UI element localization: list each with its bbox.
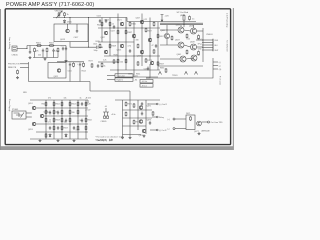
svg-text:Q653: Q653 xyxy=(28,129,33,131)
resistor R609 xyxy=(57,48,59,53)
bus label box Right In xyxy=(115,78,133,81)
resistor R639 xyxy=(125,59,127,64)
resistor R603 xyxy=(49,45,55,47)
transistor Q637 output xyxy=(178,42,184,48)
svg-text:Q631: Q631 xyxy=(161,30,166,32)
thermal sensor arrow 2 xyxy=(185,72,188,75)
svg-text:Q621: Q621 xyxy=(117,20,122,22)
node bias rail junction xyxy=(64,17,65,18)
electrolytic C609 xyxy=(65,47,67,51)
capacitor C631 xyxy=(147,67,149,71)
connector CN615 xyxy=(12,46,17,51)
svg-text:4.7k: 4.7k xyxy=(128,46,131,48)
resistor R655b xyxy=(77,102,79,107)
page edge shadow right xyxy=(233,8,234,150)
resistor R667 emitter xyxy=(186,34,188,39)
wire servo top link xyxy=(57,61,84,63)
svg-text:Relay: Relay xyxy=(159,117,164,119)
wire q out 2 xyxy=(152,116,156,118)
resistor R653 xyxy=(153,22,155,27)
svg-text:C611: C611 xyxy=(68,71,72,73)
svg-text:(-): (-) xyxy=(168,129,170,131)
electrolytic C613 xyxy=(79,63,81,67)
svg-text:WHT: WHT xyxy=(215,50,219,52)
svg-text:R657: R657 xyxy=(160,36,164,38)
wire driver row 56 xyxy=(104,55,160,57)
resistor R685 xyxy=(165,68,167,73)
svg-text:4.7k: 4.7k xyxy=(48,122,51,124)
wire sense plus lead xyxy=(175,118,186,120)
svg-text:(+): (+) xyxy=(168,119,171,121)
svg-text:C627: C627 xyxy=(111,31,115,33)
svg-text:CN603: CN603 xyxy=(206,34,213,36)
resistor R633 xyxy=(117,30,119,35)
transistor Q635 output xyxy=(191,28,197,34)
ground input stage bus xyxy=(44,58,47,61)
wire q row 118 xyxy=(123,117,153,119)
transistor Q611 xyxy=(57,69,61,73)
svg-text:+B 50V: +B 50V xyxy=(85,97,92,99)
wire output node line xyxy=(196,39,203,41)
wire input stage rail xyxy=(27,45,66,47)
wire driver vertical 110 xyxy=(109,18,111,57)
resistor R677c xyxy=(91,63,93,68)
resistor R635 xyxy=(117,59,119,64)
resistor R656 xyxy=(85,102,87,107)
resistor R627 xyxy=(109,22,111,27)
svg-text:REMOTE: REMOTE xyxy=(8,67,17,69)
transistor Q627 xyxy=(140,20,144,24)
bus label box B minus xyxy=(140,84,153,87)
svg-text:1k: 1k xyxy=(80,98,82,100)
svg-text:R654: R654 xyxy=(72,104,76,106)
zener diode D615 xyxy=(63,20,65,24)
transistor Q630 xyxy=(148,38,152,42)
svg-text:Q673: Q673 xyxy=(147,120,152,122)
svg-text:L ch Power Amp: L ch Power Amp xyxy=(226,13,229,28)
svg-text:R651: R651 xyxy=(42,104,46,106)
svg-text:+: + xyxy=(77,64,79,66)
resistor R673 emitter xyxy=(198,51,200,56)
wire q row 110 xyxy=(123,109,153,111)
wire signal link rail xyxy=(70,46,96,48)
ground protection 3 xyxy=(73,139,76,142)
capacitor C633 xyxy=(155,44,157,48)
resistor R647 xyxy=(145,28,147,33)
resistor R663 xyxy=(189,16,191,21)
terminal q out 2 xyxy=(156,116,158,118)
wire driver row 62 xyxy=(98,61,118,63)
transistor Q641 output xyxy=(180,56,186,62)
svg-text:(-): (-) xyxy=(219,66,221,68)
node q out 1 xyxy=(147,103,148,104)
resistor R601 xyxy=(36,45,42,47)
svg-text:R662: R662 xyxy=(88,120,92,122)
resistor R629 xyxy=(109,44,111,49)
wire output drop 193 xyxy=(193,25,195,28)
node driver j4 xyxy=(141,27,142,28)
wire q block top rail xyxy=(115,99,160,101)
fuse F601 xyxy=(183,14,185,25)
svg-text:+B1: +B1 xyxy=(135,76,138,78)
svg-text:47: 47 xyxy=(152,45,154,47)
svg-text:C623: C623 xyxy=(97,16,101,18)
page edge shadow left xyxy=(0,9,2,150)
node loop top xyxy=(69,17,70,18)
svg-text:CN615: CN615 xyxy=(12,55,19,57)
svg-text:Q671: Q671 xyxy=(147,106,152,108)
connector bias pin 1 xyxy=(213,61,218,63)
resistor R668 xyxy=(69,118,71,123)
resistor R673c xyxy=(53,110,55,115)
wire relay pin 2 xyxy=(26,116,32,118)
wire output drop 181 xyxy=(180,25,182,27)
connector CN603 pins xyxy=(202,39,213,41)
transistor Q651 xyxy=(32,106,36,110)
wire input stage lower bus xyxy=(33,57,58,59)
node driver j6 xyxy=(125,55,126,56)
svg-text:C617: C617 xyxy=(74,37,80,39)
svg-text:C631: C631 xyxy=(144,69,148,71)
capacitor C623 xyxy=(99,19,101,23)
wire loop to input rail xyxy=(69,42,71,48)
svg-text:Q617: Q617 xyxy=(101,37,106,39)
svg-text:2.2k: 2.2k xyxy=(103,60,106,62)
svg-text:R614: R614 xyxy=(82,71,86,73)
svg-text:1k: 1k xyxy=(67,14,69,16)
wire left riser xyxy=(28,62,30,82)
svg-text:R623: R623 xyxy=(97,25,102,27)
resistor R677 xyxy=(133,120,135,125)
wire q col 138 xyxy=(137,100,139,130)
wire center column xyxy=(88,18,90,48)
svg-text:1k: 1k xyxy=(112,24,114,26)
resistor R675 xyxy=(125,112,127,117)
resistor R679 xyxy=(152,111,154,116)
wire protection col 86 xyxy=(85,100,87,139)
svg-text:+B In: +B In xyxy=(111,114,115,116)
ground input shunt xyxy=(29,56,32,59)
capacitor C617 xyxy=(76,29,78,33)
wire protection row 108 xyxy=(36,107,88,109)
svg-text:R659: R659 xyxy=(64,128,68,130)
bus label box Low Limit xyxy=(115,74,133,77)
svg-text:R659: R659 xyxy=(160,64,164,66)
ground protection 1 xyxy=(39,139,42,142)
resistor R643 xyxy=(137,44,139,49)
svg-text:C621: C621 xyxy=(93,44,97,46)
resistor R659 xyxy=(157,61,159,66)
svg-text:R677: R677 xyxy=(89,61,93,63)
svg-text:Q637: Q637 xyxy=(175,40,180,42)
ground sense xyxy=(198,132,201,135)
capacitor C671 xyxy=(141,102,143,106)
svg-text:(+): (+) xyxy=(219,62,222,64)
wire q col 122 xyxy=(122,100,124,136)
capacitor C629 xyxy=(129,49,131,53)
resistor R653 xyxy=(61,102,63,107)
wire protection col 70 xyxy=(69,100,71,139)
svg-text:Q623: Q623 xyxy=(117,50,122,52)
wire driver vertical 126 xyxy=(125,18,127,71)
node prot j2 xyxy=(61,115,62,116)
wire feedback step xyxy=(89,82,91,92)
resistor R659b xyxy=(61,126,63,131)
node prot j1 xyxy=(53,107,54,108)
wire feedback drop to driver block xyxy=(129,91,131,100)
node driver j7 xyxy=(117,69,118,70)
resistor R665 emitter xyxy=(171,36,173,41)
resistor R661b xyxy=(77,126,79,131)
wire driver row 28 xyxy=(98,27,160,29)
transistor Q671 xyxy=(139,106,143,110)
terminal q out 3 xyxy=(156,129,158,131)
resistor R613 xyxy=(73,62,75,67)
transistor Q632 xyxy=(150,61,154,65)
resistor R664 xyxy=(45,110,47,115)
svg-text:SP Out Red: SP Out Red xyxy=(177,11,189,14)
wire prot out 1 xyxy=(87,100,89,103)
svg-text:10k: 10k xyxy=(64,122,67,124)
wire q row 126 xyxy=(123,125,147,127)
wire bias to rail xyxy=(58,16,60,19)
capacitor C637 xyxy=(97,64,99,68)
wire servo drop 2 xyxy=(79,67,81,82)
svg-text:R671: R671 xyxy=(128,104,132,106)
transistor Q631 driver xyxy=(164,33,169,38)
resistor R631 xyxy=(113,59,115,64)
transistor Q653 xyxy=(32,122,36,126)
resistor R637 xyxy=(125,30,127,35)
svg-text:R629: R629 xyxy=(112,46,117,48)
terminal sense out xyxy=(208,121,210,123)
svg-text:470: 470 xyxy=(56,112,59,114)
capacitor C621 series xyxy=(96,46,98,49)
resistor R671b xyxy=(125,102,127,107)
capacitor C665 xyxy=(49,111,51,115)
svg-text:TP601: TP601 xyxy=(172,75,178,77)
wire q out 3 xyxy=(150,129,156,131)
svg-text:10k: 10k xyxy=(80,120,83,122)
node prot j3 xyxy=(69,123,70,124)
transistor Q677 xyxy=(197,121,202,126)
svg-text:RED: RED xyxy=(215,40,219,42)
svg-text:R ch same: R ch same xyxy=(219,76,221,85)
resistor R660 xyxy=(69,110,71,115)
electrolytic C607 xyxy=(62,47,64,51)
svg-text:POWER AMP ASS'Y (717-6062-00): POWER AMP ASS'Y (717-6062-00) xyxy=(6,2,94,8)
resistor R666 xyxy=(77,110,79,115)
relay RY601 xyxy=(12,111,26,119)
resistor R614 xyxy=(83,62,85,67)
capacitor C651 xyxy=(49,126,51,130)
wire protect lead 1 xyxy=(20,63,29,65)
capacitor C663 xyxy=(81,119,83,123)
svg-text:47k: 47k xyxy=(36,51,39,53)
connector bias pin 2 xyxy=(213,65,218,67)
svg-text:+50V: +50V xyxy=(165,16,170,18)
svg-text:Q611: Q611 xyxy=(54,76,58,78)
svg-text:-B 50V: -B 50V xyxy=(85,109,91,111)
svg-text:(G): (G) xyxy=(219,69,222,71)
svg-text:Q629: Q629 xyxy=(137,56,142,58)
wire output link q637 xyxy=(184,45,191,47)
transistor Q617 xyxy=(104,31,108,35)
svg-text:0.22: 0.22 xyxy=(187,39,191,41)
node driver j1 xyxy=(117,27,118,28)
svg-text:Q677: Q677 xyxy=(194,131,199,133)
resistor R615 xyxy=(58,12,60,17)
node driver j8 xyxy=(149,55,150,56)
svg-text:330: 330 xyxy=(72,112,75,114)
svg-text:-B Out: -B Out xyxy=(142,84,148,87)
capacitor C653 xyxy=(57,111,59,115)
svg-text:Q615: Q615 xyxy=(60,39,66,41)
svg-text:0.22: 0.22 xyxy=(197,55,201,57)
transistor Q621 xyxy=(120,22,124,26)
svg-text:SP(-): SP(-) xyxy=(198,43,202,45)
wire bias box outline xyxy=(146,64,150,78)
svg-text:47k: 47k xyxy=(48,98,51,100)
wire q641 to bus xyxy=(186,58,194,59)
resistor R649 xyxy=(145,58,147,63)
node center column top xyxy=(88,17,89,18)
svg-text:(+) Out R: (+) Out R xyxy=(159,103,167,106)
terminal sense minus xyxy=(173,128,175,130)
capacitor C657 xyxy=(73,126,75,130)
wire bus label leads xyxy=(107,75,115,77)
wire feedback bus left xyxy=(29,81,91,83)
resistor R645 xyxy=(137,61,139,66)
wire loop inner stub q xyxy=(67,24,69,29)
resistor R652 xyxy=(53,102,55,107)
wire protection row 116 xyxy=(44,115,88,117)
svg-text:100p: 100p xyxy=(94,50,98,52)
ground q block 2 xyxy=(121,136,124,139)
wire q631 emitter drop xyxy=(166,39,168,45)
wire cap leg down xyxy=(65,46,67,60)
svg-text:R603: R603 xyxy=(49,43,55,45)
resistor R623 xyxy=(101,22,103,27)
wire protection col 78 xyxy=(77,100,79,139)
page edge shadow bottom xyxy=(0,146,234,150)
node driver j5 xyxy=(109,27,110,28)
terminal q out 1 xyxy=(156,103,158,105)
diode D651 xyxy=(49,134,51,138)
wire driver row 77 xyxy=(118,76,158,78)
transistor Q619 xyxy=(104,50,108,54)
svg-text:SP(+): SP(+) xyxy=(197,38,202,40)
node driver j2 xyxy=(125,27,126,28)
wire driver vertical 102 xyxy=(101,18,103,43)
resistor R669 emitter xyxy=(198,35,200,40)
wire driver row 70 xyxy=(110,69,160,71)
svg-text:717-6062-00: 717-6062-00 xyxy=(226,40,228,52)
resistor R672 xyxy=(61,118,63,123)
svg-text:+B Out: +B Out xyxy=(142,80,148,83)
svg-text:NFB: NFB xyxy=(23,92,27,94)
resistor R657 xyxy=(157,34,159,39)
wire output double rail a xyxy=(160,22,203,24)
svg-text:R652: R652 xyxy=(56,104,60,106)
resistor R665b xyxy=(61,110,63,115)
wire output double rail b xyxy=(160,24,203,26)
wire protection col 46 xyxy=(45,100,47,139)
svg-text:R658: R658 xyxy=(56,120,60,122)
svg-text:Q633: Q633 xyxy=(176,25,181,27)
svg-text:C657: C657 xyxy=(76,129,80,131)
capacitor C675 xyxy=(149,121,151,125)
transistor Q655 xyxy=(40,114,44,118)
transistor Q615 xyxy=(66,29,70,33)
svg-text:R685: R685 xyxy=(160,68,164,70)
capacitor C605 xyxy=(52,49,54,53)
svg-text:Power Supply: Power Supply xyxy=(8,99,10,111)
wire base feed mid xyxy=(160,44,178,46)
svg-text:22k: 22k xyxy=(38,55,41,57)
resistor R641 xyxy=(129,22,131,27)
resistor R671 emitter xyxy=(186,50,188,55)
capacitor C659 xyxy=(81,102,83,106)
svg-text:R641: R641 xyxy=(132,24,137,26)
svg-text:VR615: VR615 xyxy=(55,11,62,13)
transistor Q639 output xyxy=(191,44,197,50)
wire input riser xyxy=(26,46,28,49)
node prot j5 xyxy=(85,131,86,132)
node input junction xyxy=(26,48,27,49)
transistor Q629 xyxy=(140,50,144,54)
svg-text:Q627: Q627 xyxy=(136,18,140,20)
svg-text:Q675: Q675 xyxy=(139,135,144,137)
trimmer VR615 xyxy=(56,11,62,18)
svg-text:R637: R637 xyxy=(128,32,133,34)
ground q block 3 xyxy=(143,135,146,138)
resistor R667b xyxy=(53,126,55,131)
wire sense output xyxy=(202,121,208,123)
svg-text:1k: 1k xyxy=(104,66,106,68)
relay arm RY601 xyxy=(21,113,25,118)
wire feedback bus right xyxy=(90,90,130,92)
svg-text:(4Ω): (4Ω) xyxy=(180,15,184,17)
wire servo loop outline xyxy=(48,63,66,79)
svg-text:Q641: Q641 xyxy=(177,54,182,56)
wire output bus vertical xyxy=(202,28,204,62)
transistor Q625 xyxy=(132,34,136,38)
svg-text:D671: D671 xyxy=(186,113,190,115)
ground protection 2 xyxy=(57,139,60,142)
svg-text:GND: GND xyxy=(198,48,203,50)
electrolytic C611 xyxy=(69,63,71,67)
wire loop center drop xyxy=(69,18,71,25)
supply arrow symbol xyxy=(161,15,164,22)
wire protection col 62 xyxy=(61,100,63,139)
transistor Q675 xyxy=(142,129,146,133)
resistor R658 xyxy=(53,118,55,123)
wire protect lead 2 xyxy=(20,66,29,68)
svg-text:* 印■わ囲(円) 指定: * 印■わ囲(円) 指定 xyxy=(95,138,113,142)
wire q col 146 xyxy=(145,100,147,134)
svg-text:+: + xyxy=(61,46,63,48)
resistor R654 xyxy=(69,102,71,107)
capacitor C627 xyxy=(113,25,115,29)
wire base feed upper xyxy=(160,29,178,31)
transistor Q623 xyxy=(120,44,124,48)
svg-text:* The watt is not checked : 1/: * The watt is not checked : 1/4W. xyxy=(95,135,125,138)
schematic border frame xyxy=(5,9,230,145)
resistor R607 xyxy=(46,48,48,53)
wire driver vertical 134 xyxy=(133,22,135,77)
svg-text:100: 100 xyxy=(120,62,123,64)
